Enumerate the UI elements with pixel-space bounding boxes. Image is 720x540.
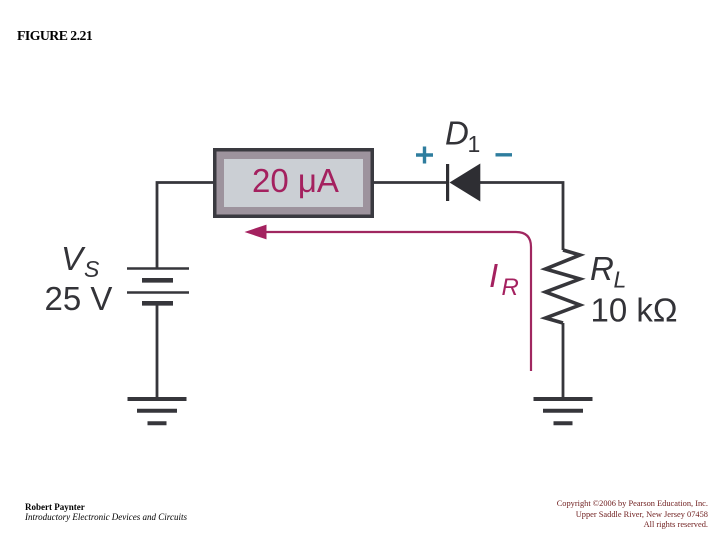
svg-text:S: S — [84, 256, 100, 282]
svg-text:V: V — [61, 240, 86, 277]
svg-text:L: L — [614, 267, 627, 293]
svg-text:25 V: 25 V — [45, 280, 113, 317]
svg-text:10 kΩ: 10 kΩ — [591, 292, 678, 329]
svg-text:R: R — [590, 250, 614, 287]
svg-text:I: I — [489, 257, 498, 294]
svg-text:D: D — [445, 115, 469, 152]
svg-text:20 μA: 20 μA — [252, 162, 339, 199]
svg-text:1: 1 — [468, 131, 481, 157]
svg-text:R: R — [502, 274, 519, 301]
